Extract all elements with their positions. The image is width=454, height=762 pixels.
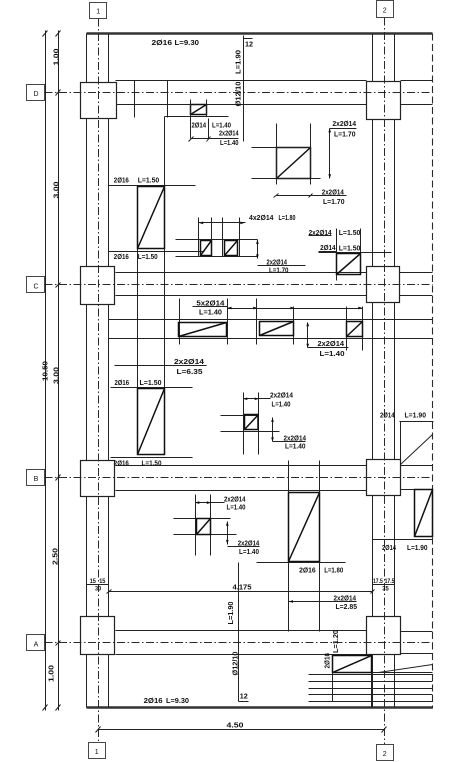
svg-text:L=1.20: L=1.20 (331, 630, 340, 653)
beam strip along grid 2 (373, 34, 395, 708)
labels 2x2Ø14 L=1.50 / 2Ø14 L=1.50 near C2 (309, 228, 361, 275)
hook bar 2Ø14 L=1.90 above B2 (380, 411, 434, 466)
beam D (116, 81, 433, 105)
svg-text:L=1.70: L=1.70 (334, 129, 356, 138)
bottom bar label 2Ø16 L=9.30 (144, 696, 189, 705)
svg-text:30: 30 (95, 586, 102, 592)
svg-text:L=1.90: L=1.90 (407, 543, 428, 552)
svg-text:B: B (34, 476, 39, 483)
stair tread lines (309, 675, 433, 702)
svg-text:Ø12/10: Ø12/10 (230, 652, 239, 676)
svg-text:4.175: 4.175 (233, 582, 252, 591)
svg-text:L=1.40: L=1.40 (199, 308, 222, 317)
leader 2x2Ø14 L=1.40 (below middle box) (271, 418, 307, 451)
column A1 (81, 617, 115, 655)
svg-text:2Ø14: 2Ø14 (382, 543, 397, 552)
svg-text:12: 12 (245, 39, 253, 48)
grid line B centerline (45, 477, 433, 479)
svg-text:2x2Ø14: 2x2Ø14 (322, 188, 345, 197)
svg-text:L=1.50: L=1.50 (138, 176, 160, 185)
svg-text:L=9.30: L=9.30 (166, 696, 189, 705)
column B1 (81, 461, 115, 497)
bottom slab edge beam (87, 706, 433, 708)
svg-text:3.00: 3.00 (51, 182, 60, 199)
svg-text:L=1.80: L=1.80 (324, 566, 343, 575)
svg-text:15: 15 (99, 579, 106, 585)
svg-text:2x2Ø14: 2x2Ø14 (318, 339, 345, 348)
stirrup box 2x2Ø14 L=1.40 (B row) (174, 494, 247, 555)
label 2x2Ø14 L=6.35 (115, 357, 207, 376)
dimension 4.175 (107, 582, 375, 593)
svg-text:L=1.40: L=1.40 (239, 547, 259, 556)
column A2 (367, 617, 401, 655)
leader for 2x2Ø14 L=1.70 top (328, 119, 356, 179)
svg-text:L=1.80: L=1.80 (279, 213, 296, 222)
svg-text:2Ø16: 2Ø16 (323, 653, 332, 669)
svg-text:L=1.40: L=1.40 (272, 400, 291, 409)
svg-text:L=1.50: L=1.50 (142, 458, 162, 467)
grid bubble D (27, 85, 45, 101)
svg-text:1: 1 (96, 9, 100, 16)
leader 2x2Ø14 L=2.85 (289, 593, 358, 611)
flat bar box (band, middle) (257, 299, 294, 345)
svg-text:L=1.50: L=1.50 (339, 244, 361, 253)
leader 2x2Ø14 L=1.40 (band) (306, 322, 348, 358)
column C1 (81, 267, 115, 305)
hook bar 2Ø14 L=1.90 below B2 (373, 490, 433, 553)
grid bubble C (27, 277, 45, 293)
svg-text:2Ø16: 2Ø16 (152, 38, 173, 47)
svg-text:1: 1 (95, 749, 99, 756)
bent bar box 2Ø16 L=1.50 (upper) (109, 176, 205, 261)
top bar label 2Ø16 L=9.30 (152, 38, 200, 47)
bent bar box near C2 (319, 253, 392, 281)
grid bubble 2 bottom (377, 745, 394, 761)
beam B (116, 466, 433, 491)
grid bubble B (27, 470, 45, 486)
column C2 (367, 267, 400, 303)
distribution bar 12 top (244, 36, 254, 142)
lower label 2x2Ø14 L=1.70 (box D) (274, 188, 347, 207)
dimension line 4.50 bottom (96, 720, 387, 732)
flat bar box (band, left) (179, 299, 228, 345)
svg-text:L=1.50: L=1.50 (140, 378, 162, 387)
label 5x2Ø14 L=1.40 (193, 299, 363, 317)
svg-text:2x2Ø14: 2x2Ø14 (219, 128, 239, 137)
bar crossing beam D left (134, 81, 136, 118)
svg-text:17.5: 17.5 (385, 579, 395, 585)
grid line 2 centerline (384, 18, 386, 745)
beam C (116, 273, 433, 296)
grid line 1 centerline (98, 19, 100, 743)
svg-text:17.5: 17.5 (373, 579, 383, 585)
right boundary dashed edge (432, 34, 434, 709)
beam strip along grid 1 (87, 34, 109, 708)
svg-text:A: A (34, 642, 39, 649)
svg-text:2x2Ø14: 2x2Ø14 (333, 119, 357, 128)
svg-text:L=1.40: L=1.40 (285, 442, 306, 451)
leader 2x2Ø14 L=1.40 (B row) (226, 522, 260, 556)
svg-text:2Ø14: 2Ø14 (320, 243, 336, 252)
svg-text:1.00: 1.00 (47, 665, 56, 682)
svg-text:2Ø16: 2Ø16 (115, 378, 130, 387)
svg-text:L=1.90: L=1.90 (226, 602, 235, 625)
svg-text:L=1.90: L=1.90 (405, 411, 427, 420)
svg-text:2x2Ø14: 2x2Ø14 (270, 391, 294, 400)
rebar detail box 2Ø14 (top) (165, 100, 239, 187)
bar connector lines between upper and lower bent boxes (138, 249, 165, 389)
stirrup box 2x2Ø14 L=1.40 (middle) (221, 391, 294, 455)
svg-text:2Ø16: 2Ø16 (114, 252, 129, 261)
svg-text:Ø12/10: Ø12/10 (233, 82, 242, 107)
svg-text:L=9.30: L=9.30 (175, 38, 200, 47)
svg-text:L=1.50: L=1.50 (339, 228, 361, 237)
grid bubble 1 bottom (89, 743, 106, 759)
stair break wedge (372, 665, 433, 673)
grid line D centerline (45, 92, 433, 94)
grid bubble A (27, 635, 45, 651)
svg-text:12: 12 (240, 691, 248, 700)
dimension line overall 10.50 (40, 31, 49, 711)
bar crossing beam D right (167, 81, 169, 118)
svg-text:2.50: 2.50 (51, 548, 60, 565)
grid line A centerline (45, 642, 433, 644)
distribution bar 12 bottom (239, 563, 249, 702)
label 2Ø14 L=1.40 row (192, 120, 232, 129)
svg-text:L=1.40: L=1.40 (220, 138, 239, 147)
svg-text:35: 35 (382, 586, 389, 592)
svg-text:L=1.40: L=1.40 (320, 349, 345, 358)
column D1 (81, 83, 117, 119)
svg-text:L=6.35: L=6.35 (177, 367, 203, 376)
svg-text:2Ø16: 2Ø16 (114, 176, 129, 185)
svg-text:L=2.85: L=2.85 (336, 602, 358, 611)
svg-text:L=1.90: L=1.90 (233, 50, 242, 74)
svg-text:2Ø16: 2Ø16 (114, 458, 129, 467)
grid line C centerline (45, 284, 433, 286)
svg-text:2Ø16: 2Ø16 (299, 566, 316, 575)
svg-text:2: 2 (383, 8, 387, 15)
stair flat bar box (333, 656, 372, 708)
svg-text:D: D (33, 91, 38, 98)
dimension line segments 1.00/3.00/3.00/2.50/1.00 (47, 31, 61, 711)
dimension 17.5/17.5 + 35 at grid 2 (373, 579, 395, 592)
beam A (116, 631, 433, 655)
svg-text:4.50: 4.50 (227, 720, 244, 729)
svg-text:10.50: 10.50 (40, 361, 49, 381)
bent bar box 2Ø16 L=1.80 (257, 461, 346, 632)
svg-text:L=1.70: L=1.70 (269, 266, 289, 275)
svg-text:2: 2 (383, 751, 387, 758)
svg-text:2x2Ø14: 2x2Ø14 (334, 593, 357, 602)
middle band below C (109, 320, 433, 339)
svg-text:2Ø14: 2Ø14 (380, 411, 395, 420)
svg-text:2Ø14: 2Ø14 (192, 120, 207, 129)
rebar opening box 2x2Ø14 L=1.70 (252, 124, 321, 185)
svg-text:4x2Ø14: 4x2Ø14 (249, 213, 274, 222)
bent bar box 2Ø16 L=1.50 (lower) (111, 378, 193, 467)
svg-text:1.00: 1.00 (52, 49, 61, 66)
top slab edge beam (87, 32, 433, 34)
svg-text:L=1.70: L=1.70 (323, 197, 345, 206)
svg-text:2x2Ø14: 2x2Ø14 (174, 357, 205, 366)
svg-text:L=1.40: L=1.40 (227, 503, 246, 512)
svg-text:2Ø16: 2Ø16 (144, 696, 163, 705)
column D2 (367, 82, 401, 120)
grid bubble 1 top (90, 3, 107, 19)
flat bar box (band, right) (347, 307, 363, 351)
leader 2x2Ø14 L=1.70 (mid) (256, 240, 305, 275)
column B2 (367, 460, 401, 496)
svg-text:C: C (33, 284, 38, 291)
svg-text:15: 15 (90, 579, 97, 585)
dimension 15/15 + 30 at grid 1 (87, 579, 109, 592)
svg-text:3.00: 3.00 (51, 367, 60, 384)
grid bubble 2 top (377, 1, 394, 18)
svg-text:L=1.50: L=1.50 (138, 252, 158, 261)
stirrup group 4x2Ø14 L=1.80 (176, 213, 296, 257)
